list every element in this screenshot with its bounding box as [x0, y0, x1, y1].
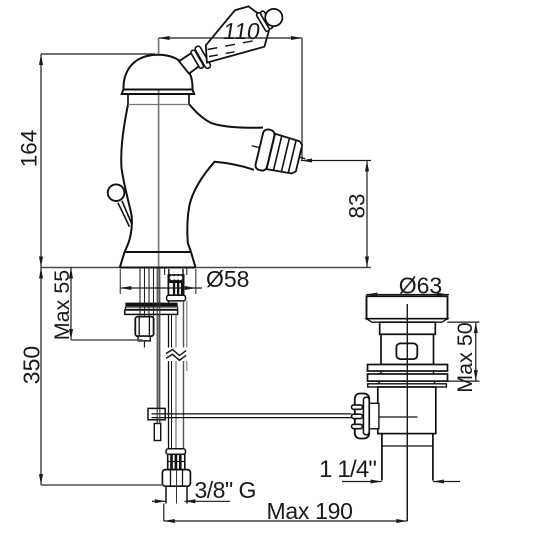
- pop-up knob: [108, 184, 125, 201]
- arrowheads: [39, 36, 478, 523]
- dim o63 line: [366, 294, 449, 296]
- supply axis line: [176, 470, 178, 504]
- 83 arrows: [365, 161, 369, 172]
- riser hose tube: [169, 301, 187, 449]
- dim 110 right extension: [301, 38, 303, 161]
- svg-text:1 1/4": 1 1/4": [319, 456, 376, 483]
- 1 1/4 arrows: [371, 480, 382, 484]
- 3/8 arrows: [155, 499, 166, 503]
- deck line: [41, 267, 371, 269]
- drain upper body: [381, 334, 434, 364]
- pivot rod inside body: [369, 416, 417, 418]
- dim 1 1/4 lines: [342, 481, 382, 483]
- faucet body: [120, 105, 263, 268]
- svg-text:Ø63: Ø63: [399, 273, 442, 299]
- supply hose lines: [140, 268, 187, 317]
- svg-text:Max 190: Max 190: [267, 498, 353, 524]
- handle neck ring A: [256, 12, 270, 32]
- hose end knurl: [168, 454, 185, 469]
- drain lower body: [378, 387, 436, 434]
- handle collar ring 2: [194, 45, 211, 69]
- hose end collar: [166, 449, 186, 455]
- dim 110 line: [159, 37, 302, 39]
- toothed pivot nut: [352, 394, 370, 439]
- washer: [125, 307, 177, 309]
- dim o58 extension ticks: [119, 269, 121, 294]
- dim 83 line: [366, 161, 368, 268]
- 164 arrows: [39, 54, 43, 65]
- dim max190 line: [164, 520, 407, 522]
- dim max190 left extension: [163, 504, 165, 522]
- flange lip: [367, 319, 448, 322]
- o63 arrows: [366, 293, 377, 297]
- body edge segments in gaps: [380, 371, 382, 374]
- svg-text:Ø58: Ø58: [206, 266, 249, 292]
- handle collar ring 1: [190, 49, 204, 69]
- ring bar 1: [368, 365, 448, 372]
- svg-text:Max 50: Max 50: [453, 322, 477, 393]
- ring bar 3: [368, 384, 447, 387]
- dim left vertical line: [40, 54, 42, 485]
- shank nut: [167, 295, 186, 301]
- pop-up rod through clamp: [156, 409, 158, 424]
- o58 arrows: [120, 286, 131, 290]
- drain flange: [367, 296, 448, 319]
- drain centerline: [406, 304, 408, 521]
- supply tailpiece: [166, 486, 187, 503]
- ring bar 2: [368, 374, 448, 381]
- dim 350 bottom extension: [41, 484, 164, 486]
- fixing plate: [125, 310, 178, 314]
- svg-text:3/8" G: 3/8" G: [195, 477, 256, 503]
- dim max50 line: [475, 322, 477, 381]
- 110 arrows: [159, 36, 170, 40]
- dome cap: [122, 55, 195, 105]
- handle neck ring B: [260, 10, 274, 29]
- pop-up rod: [156, 268, 158, 424]
- hose nut: [135, 317, 153, 348]
- pop-up rod tip: [154, 424, 160, 441]
- rod clamp: [148, 408, 165, 419]
- drain neck: [380, 322, 436, 334]
- gasket (black): [125, 303, 177, 307]
- centerline over drain (redraw): [406, 304, 408, 521]
- dim 164 top extension: [41, 53, 155, 55]
- svg-text:83: 83: [344, 193, 369, 218]
- push button square: [396, 343, 417, 359]
- 3/8 hex nut: [162, 470, 190, 487]
- handle stem: [179, 52, 203, 73]
- svg-text:110: 110: [221, 18, 262, 44]
- dim 83 top extension: [301, 160, 371, 162]
- max190 arrows: [164, 519, 175, 523]
- dim 3/8 lines: [152, 500, 166, 502]
- pivot joint connector: [369, 403, 379, 429]
- handle hatch dashes: [208, 40, 259, 50]
- svg-text:Max 55: Max 55: [50, 270, 74, 341]
- horizontal linkage rod: [152, 413, 352, 415]
- max55 arrows: [69, 268, 73, 279]
- handle ball: [265, 9, 282, 26]
- threaded shank: [168, 269, 183, 295]
- svg-text:350: 350: [18, 346, 44, 384]
- dim max50 extensions: [447, 321, 479, 323]
- handle body: [206, 6, 269, 62]
- 350 arrows: [39, 268, 43, 279]
- dim o58 line: [120, 287, 202, 289]
- dim max55 line: [70, 268, 72, 341]
- spout aerator: [247, 127, 310, 180]
- 83 leader arrow at aerator: [301, 159, 312, 163]
- tube break symbol: [165, 348, 188, 362]
- drain tailpiece: [382, 434, 433, 481]
- pop-up knob lever: [122, 201, 132, 225]
- svg-text:164: 164: [16, 130, 41, 168]
- max50 arrows: [474, 322, 478, 333]
- centerline faucet: [158, 38, 160, 269]
- dim max55 extension: [71, 339, 143, 341]
